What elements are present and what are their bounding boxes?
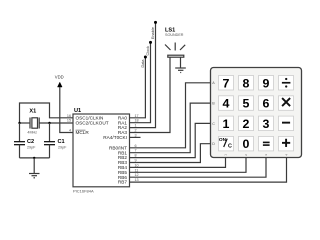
wire OSC2: crystal right plate to chip pin 15: [39, 122, 73, 124]
svg-text:MCLR: MCLR: [76, 130, 90, 135]
ground (capacitors): [29, 174, 40, 178]
svg-text:VDD: VDD: [55, 75, 64, 80]
wire sounder left leg to RA3: [130, 57, 171, 132]
power VDD: [55, 75, 64, 87]
svg-text:3: 3: [263, 117, 270, 131]
svg-text:X1: X1: [29, 109, 36, 115]
svg-text:6: 6: [263, 97, 270, 111]
crystal X1: [30, 118, 39, 129]
svg-text:0: 0: [243, 137, 250, 151]
keypad frame: [211, 68, 302, 158]
key 1: [219, 116, 234, 131]
svg-text:15: 15: [67, 119, 71, 123]
capacitor C1: [44, 142, 55, 145]
svg-text:7: 7: [223, 76, 230, 90]
wire sounder right leg: [180, 57, 182, 68]
wire col 2 to RB5: [130, 158, 247, 173]
svg-text:C1: C1: [58, 139, 65, 145]
op chip body U1: [73, 114, 130, 187]
wire col 1 to RB4: [130, 158, 226, 168]
svg-text:C: C: [212, 122, 215, 126]
svg-text:16: 16: [67, 114, 71, 118]
key ON/C: [219, 136, 234, 151]
node right crystal junction: [48, 122, 50, 124]
wire ground drop: [33, 158, 35, 173]
svg-text:29pF: 29pF: [58, 146, 67, 150]
wire row C to RB2: [130, 123, 211, 157]
node Enable terminal: [154, 21, 157, 24]
key plus: [279, 136, 294, 151]
svg-text:SOUNDER: SOUNDER: [165, 33, 184, 37]
key minus: [279, 116, 294, 131]
wire VDD to MCLR: [60, 87, 73, 133]
key 0: [239, 136, 254, 151]
svg-text:4: 4: [69, 129, 71, 133]
svg-text:4MHz: 4MHz: [27, 131, 37, 135]
wire row D to RB3: [130, 144, 211, 163]
svg-text:9: 9: [263, 76, 270, 90]
svg-text:RB7: RB7: [118, 180, 128, 185]
key 3: [259, 116, 274, 131]
node left crystal junction: [18, 122, 20, 124]
svg-text:OSC2/CLKOUT: OSC2/CLKOUT: [76, 120, 109, 125]
svg-text:2: 2: [243, 117, 250, 131]
key equals: [259, 136, 274, 151]
key multiply: [279, 96, 294, 111]
ground (sounder): [175, 68, 186, 73]
key 8: [239, 76, 254, 91]
svg-text:5: 5: [243, 97, 250, 111]
wire RA0 to Data terminal: [130, 57, 146, 118]
capacitor C2: [14, 142, 25, 145]
svg-text:C: C: [228, 143, 232, 149]
wire OSC1 loop: left node up over to OSC1 pin: [20, 103, 74, 123]
wire C2 bottom lead: [19, 145, 21, 158]
svg-text:D: D: [212, 142, 215, 146]
wire crystal left lead: [20, 122, 31, 124]
sounder plate: [168, 55, 184, 57]
svg-text:Enable: Enable: [151, 27, 155, 39]
node Data terminal: [144, 56, 147, 59]
sounder rays: [165, 43, 185, 51]
key divide: [279, 76, 294, 91]
wire C1 top lead: [49, 123, 51, 141]
wire row B to RB1: [130, 103, 211, 153]
svg-text:29pF: 29pF: [27, 146, 36, 150]
key 9: [259, 76, 274, 91]
node ground rail junction: [33, 157, 35, 159]
wire ground rail: [20, 157, 50, 159]
svg-text:1: 1: [223, 117, 230, 131]
svg-text:8: 8: [243, 76, 250, 90]
wire row A to RB0: [130, 83, 211, 148]
wire C1 bottom lead: [49, 145, 51, 158]
svg-text:C2: C2: [27, 139, 34, 145]
wire RA2 to Enable terminal: [130, 22, 156, 127]
key 4: [219, 96, 234, 111]
key 2: [239, 116, 254, 131]
svg-text:RA4/T0CKI: RA4/T0CKI: [103, 135, 127, 140]
key 6: [259, 96, 274, 111]
wire C2 top lead: [19, 123, 21, 141]
pin name MCLR with overline: [76, 130, 90, 135]
wire RA1 to Clock terminal: [130, 42, 151, 122]
svg-text:Clock: Clock: [146, 46, 150, 56]
wire col 4 to RB7: [130, 158, 287, 183]
key 5: [239, 96, 254, 111]
key 7: [219, 76, 234, 91]
svg-text:Data: Data: [141, 59, 145, 68]
svg-text:4: 4: [223, 97, 230, 111]
wire RA4 stub: [130, 136, 141, 138]
svg-text:PIC16F84A: PIC16F84A: [73, 188, 94, 193]
svg-text:U1: U1: [74, 108, 81, 114]
wire col 3 to RB6: [130, 158, 267, 178]
node Clock terminal: [149, 41, 152, 44]
